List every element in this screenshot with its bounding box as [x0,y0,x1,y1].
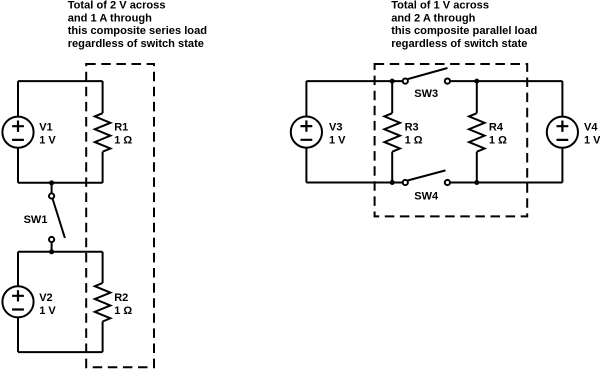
wire R4 top lead [476,81,478,113]
wire V4 top lead [561,81,563,117]
svg-text:1 Ω: 1 Ω [114,305,132,317]
svg-text:V2: V2 [39,292,52,304]
svg-text:R1: R1 [114,122,128,134]
wire junction to SW1 top terminal [51,183,53,194]
svg-text:V4: V4 [584,122,598,134]
svg-text:1 Ω: 1 Ω [114,135,132,147]
wire R3 top lead [391,81,393,113]
svg-text:V1: V1 [39,122,52,134]
wire R2 top lead [102,252,104,283]
switch SW3 [403,68,450,84]
svg-text:R3: R3 [405,122,419,134]
wire V2 top lead [17,252,19,287]
wire V3 bottom lead [305,147,307,182]
svg-text:V3: V3 [329,122,342,134]
junction node R3 top [390,79,395,84]
voltage source V2 [2,286,33,317]
svg-text:1 V: 1 V [39,135,56,147]
svg-text:1 V: 1 V [584,135,600,147]
resistor R2 [95,283,111,322]
svg-text:R2: R2 [114,292,128,304]
wire R1 top lead [102,81,104,113]
wire R1 bottom lead [102,152,104,183]
svg-text:1 Ω: 1 Ω [489,135,507,147]
svg-text:1 V: 1 V [39,305,56,317]
svg-text:1 Ω: 1 Ω [405,135,423,147]
svg-text:SW3: SW3 [414,88,438,100]
wire V4 bottom lead [561,147,563,182]
wire top of V1 loop [18,80,103,82]
switch SW4 [403,170,450,185]
wire V2 bottom lead [17,317,19,352]
wire V3 top lead [305,81,307,117]
voltage source V3 [291,117,322,148]
wire V1 bottom lead [17,147,19,182]
wire bottom rail left segment (V3 to SW4) [306,182,402,184]
junction node R3 bottom [390,180,395,185]
wire bottom of V2 loop [18,351,103,353]
wire R3 bottom lead [391,152,393,183]
wire bottom rail right segment (SW4 to V4) [450,182,562,184]
resistor R1 [95,113,111,152]
svg-text:SW4: SW4 [414,190,439,202]
wire bottom of V1 loop [18,182,103,184]
wire top rail left segment (V3 to SW3) [306,80,402,82]
switch SW1 [49,193,65,242]
wire top rail right segment (SW3 to V4) [450,80,562,82]
voltage source V4 [547,117,578,148]
voltage source V1 [2,117,33,148]
wire SW1 bottom terminal to V2 loop [51,242,53,252]
resistor R3 [384,113,400,152]
dashed enclosure parallel load [375,64,528,216]
junction node top of SW1 [49,180,54,185]
svg-text:1 V: 1 V [329,135,346,147]
wire left of V1 loop (V1 top lead) [17,81,19,117]
junction node R4 top [474,79,479,84]
resistor R4 [469,113,485,152]
dashed enclosure series load [86,64,154,367]
wire R2 bottom lead [102,322,104,353]
svg-text:R4: R4 [489,122,504,134]
wire top of V2 loop [18,251,103,253]
junction node R4 bottom [474,180,479,185]
wire R4 bottom lead [476,152,478,183]
junction node bottom of SW1 [49,249,54,254]
svg-text:SW1: SW1 [24,214,48,226]
